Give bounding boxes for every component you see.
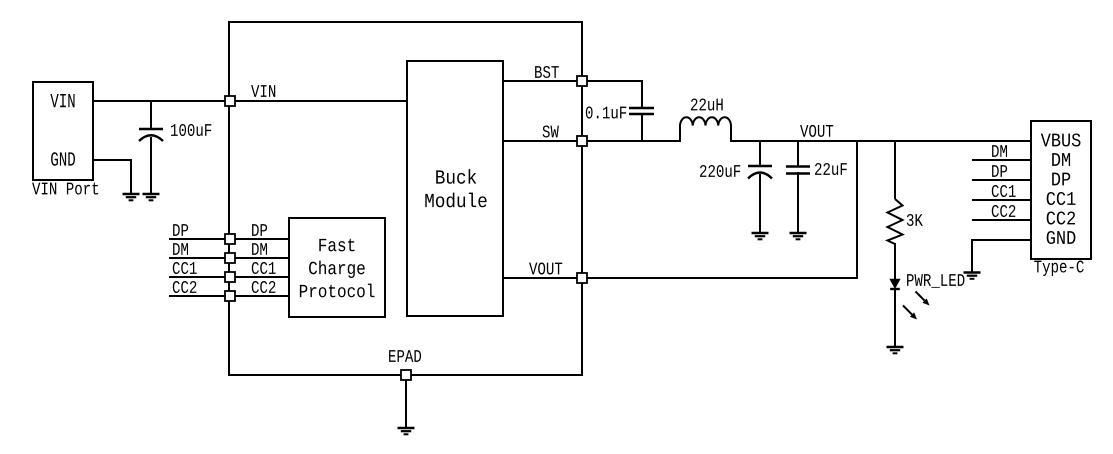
capacitor C2 0.1uF plate1 — [629, 107, 654, 110]
pin label CC1 of J2 — [1047, 192, 1076, 205]
wire BST net horizontal — [587, 80, 643, 82]
wire CC1 pin to Fast Charge block — [231, 276, 289, 278]
wire GND of J1 vertical — [130, 159, 132, 194]
inductor L1 22uH — [680, 117, 731, 142]
net label DM left — [173, 243, 188, 255]
pin SW of U1 — [577, 136, 587, 146]
net label CC2 right — [992, 205, 1016, 217]
pin label VOUT of U1 — [529, 262, 562, 274]
net label CC2 left — [173, 281, 197, 293]
wire SW net — [587, 140, 681, 142]
wire net stub CC2 right — [972, 219, 1031, 221]
wire VOUT net main — [730, 140, 1031, 142]
capacitor C1 100uF curved plate — [139, 135, 163, 141]
capacitor C4 22uF plate2 — [786, 172, 810, 175]
label VIN Port — [32, 183, 98, 195]
capacitor C3 220uF plate — [748, 165, 772, 168]
wire net stub DM right — [972, 159, 1031, 161]
ground for J1 GND — [123, 194, 140, 200]
label Type-C — [1034, 260, 1084, 276]
wire Buck BST to BST pin — [503, 80, 578, 82]
value label 0.1uF — [586, 106, 626, 118]
capacitor C3 lead top — [759, 140, 761, 166]
label Buck — [436, 169, 476, 184]
value label 22uH — [691, 98, 723, 110]
net label VOUT — [800, 125, 833, 137]
block Fast Charge Protocol — [289, 218, 385, 317]
label Module — [425, 193, 486, 208]
capacitor C4 lead top — [797, 140, 799, 166]
net label VIN — [251, 85, 275, 97]
pin DP of U1 — [225, 234, 235, 244]
wire VIN pin to Buck Module — [234, 100, 407, 102]
wire net stub DM left — [169, 257, 229, 259]
pin label CC2 of U1 — [252, 281, 276, 293]
connector J2 Type-C body — [1031, 121, 1091, 259]
LED D1 cathode bar — [890, 288, 900, 290]
net label CC1 left — [173, 262, 197, 274]
pin label BST — [535, 66, 559, 78]
value label 220uF — [700, 165, 740, 177]
ground for J2 — [964, 273, 981, 279]
wire GND of J2 vertical — [971, 239, 973, 272]
resistor R1 3K — [888, 199, 903, 244]
wire BST net vertical — [641, 80, 643, 108]
pin label DP of U1 — [252, 224, 267, 236]
capacitor C4 22uF plate1 — [786, 165, 810, 168]
pin label GND of J1 — [51, 152, 75, 166]
LED light arrow 1 — [916, 292, 925, 301]
wire EPAD to ground — [405, 380, 407, 428]
wire DM pin to Fast Charge block — [231, 257, 289, 259]
pin label CC1 of U1 — [252, 262, 276, 274]
wire CC2 pin to Fast Charge block — [231, 295, 289, 297]
pin label DM of U1 — [252, 243, 267, 255]
pin label VIN of J1 — [50, 94, 74, 107]
pin label DM of J2 — [1052, 153, 1070, 166]
net label CC1 right — [992, 185, 1016, 197]
capacitor C3 lead bottom — [759, 174, 761, 233]
pin BST of U1 — [577, 76, 587, 86]
wire Buck VOUT to VOUT pin — [503, 277, 578, 279]
capacitor C2 lead bottom — [641, 114, 643, 142]
wire DP pin to Fast Charge block — [231, 238, 289, 240]
wire net stub CC1 right — [972, 199, 1031, 201]
net label DP right — [992, 165, 1007, 177]
capacitor C1 lead top — [150, 100, 152, 129]
pin label GND of J2 — [1047, 231, 1076, 244]
label Fast — [319, 239, 354, 252]
value label 100uF — [171, 124, 211, 136]
net label DM right — [992, 145, 1007, 157]
pin CC1 of U1 — [225, 272, 235, 282]
wire 3K branch top — [894, 140, 896, 199]
pin label EPAD — [389, 350, 421, 362]
capacitor C3 220uF curved plate — [748, 173, 772, 179]
capacitor C1 lead bottom — [150, 137, 152, 194]
wire net stub CC1 left — [169, 276, 229, 278]
ground for EPAD — [398, 428, 415, 434]
IC U1 main body rectangle — [229, 22, 582, 375]
wire net stub DP right — [972, 179, 1031, 181]
capacitor C4 lead bottom — [797, 172, 799, 233]
ground for C1 — [143, 194, 160, 200]
wire GND of J2 horizontal — [972, 239, 1031, 241]
capacitor C1 100uF plate — [139, 128, 163, 131]
wire VOUT pin feedback vertical — [856, 142, 858, 279]
pin label CC2 of J2 — [1047, 211, 1075, 224]
block Buck Module — [407, 61, 503, 316]
wire VOUT pin feedback horizontal — [587, 277, 858, 279]
pin label DP of J2 — [1052, 173, 1070, 186]
value label 22uF — [815, 163, 847, 175]
label Charge — [309, 261, 365, 278]
pin DM of U1 — [225, 253, 235, 263]
pin EPAD of U1 — [401, 370, 411, 380]
label PWR_LED — [907, 274, 964, 288]
LED D1 triangle — [890, 279, 900, 288]
ground for LED — [887, 347, 904, 353]
pin CC2 of U1 — [225, 291, 235, 301]
label Protocol — [300, 284, 375, 298]
pin VIN of U1 — [225, 96, 235, 106]
connector J1 VIN Port — [33, 82, 93, 180]
ground for C3 — [752, 233, 769, 239]
wire net stub DP left — [169, 238, 229, 240]
ground for C4 — [790, 233, 807, 239]
pin label VBUS of J2 — [1041, 133, 1081, 146]
wire resistor to LED — [894, 243, 896, 280]
net label DP left — [173, 224, 188, 236]
wire VIN-port to VIN pin — [93, 100, 230, 102]
LED light arrow 2 — [903, 306, 912, 315]
pin VOUT of U1 — [577, 273, 587, 283]
wire net stub CC2 left — [169, 295, 229, 297]
capacitor C2 0.1uF plate2 — [629, 113, 654, 116]
value label 3K — [907, 214, 923, 226]
wire Buck SW to SW pin — [503, 140, 578, 142]
wire LED to ground — [894, 288, 896, 347]
wire GND of J1 horizontal — [93, 159, 132, 161]
pin label SW — [543, 125, 559, 137]
